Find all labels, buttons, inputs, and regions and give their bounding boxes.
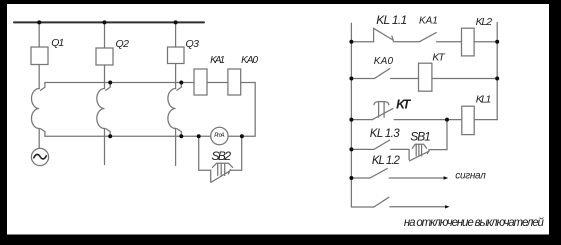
SB1 contact blade (410, 151, 429, 161)
node rung3 SB1 branch (445, 118, 449, 122)
rung3 wire to right rail (474, 119, 497, 121)
rung4 wire to SB1 (391, 148, 409, 150)
CT2 secondary top lead (106, 83, 110, 91)
contact KA0 blade (374, 69, 389, 79)
svg-text:PmA: PmA (214, 133, 224, 139)
SB2 button dome (212, 163, 232, 167)
node rail1 rung3 (349, 118, 353, 122)
rung3 wire from left rail (351, 119, 372, 121)
bus bar (14, 21, 204, 23)
SB2 left branch wire (199, 136, 211, 182)
contact KL1.3 blade (374, 140, 390, 149)
SB1 dome hatch lines (416, 144, 421, 156)
rung5 wire to signal arrow (389, 177, 444, 179)
CT1 secondary bottom lead (41, 129, 45, 137)
AC tilde (34, 154, 47, 159)
contact KL1.2 blade (370, 169, 387, 178)
svg-text:Q1: Q1 (51, 37, 64, 49)
svg-text:SB2: SB2 (212, 149, 232, 163)
node bus-phase2 (103, 20, 107, 24)
node SB2 right (240, 134, 244, 138)
relay coil KA0 (228, 69, 241, 95)
CT2 secondary bottom lead (106, 129, 110, 137)
svg-text:на отключение выключателей: на отключение выключателей (404, 217, 545, 229)
node bus-phase3 (174, 20, 178, 24)
right rail of ladder (496, 23, 498, 120)
SB1 right wire (429, 149, 447, 151)
contact blade rung6 (374, 197, 389, 207)
CT2 winding arcs (97, 89, 105, 129)
svg-text:Q2: Q2 (116, 38, 130, 50)
contact KL1.1 blade (374, 28, 393, 40)
node top CT3 (179, 81, 183, 85)
wire Q2 to CT2 (104, 65, 106, 89)
wire CT1 to source (38, 129, 40, 149)
svg-text:KL 1.2: KL 1.2 (372, 155, 401, 167)
wire secondary top bus (45, 82, 194, 84)
SB1 button dome (412, 144, 426, 148)
rung2 wire to right rail (432, 78, 497, 80)
svg-text:KA0: KA0 (374, 56, 394, 67)
node bottom CT3 (179, 134, 183, 138)
contact KT blade (372, 109, 392, 120)
rung6 wire to arrow (390, 206, 446, 208)
node rail1 rung2 (349, 77, 353, 81)
SB2 contact blade (211, 171, 230, 182)
relay coil KT (419, 63, 432, 91)
CT3 winding arcs (168, 89, 176, 129)
wire CT3 tail (175, 129, 177, 166)
rung4 wire from left rail (351, 148, 374, 150)
SB2 right branch wire (230, 136, 241, 170)
relay coil KL2 (462, 28, 475, 56)
wire Q1 to CT1 (38, 65, 40, 89)
CT3 secondary bottom lead (177, 129, 181, 137)
node rail1 rung5 (349, 176, 353, 180)
breaker Q3 (168, 47, 185, 64)
svg-text:KL 1.1: KL 1.1 (376, 13, 407, 27)
svg-text:KL 1.3: KL 1.3 (370, 128, 400, 140)
rung2 wire to KT coil (391, 78, 419, 80)
node SB2 left (197, 134, 201, 138)
node rail2 rung1 (495, 40, 499, 44)
SB1 step (408, 150, 410, 160)
node rail1 rung1 (349, 40, 353, 44)
wire CT2 tail (104, 129, 106, 165)
svg-text:SB1: SB1 (410, 130, 431, 144)
rung5 wire from left rail (351, 177, 370, 179)
svg-text:KA0: KA0 (241, 55, 258, 66)
contact KL1.1 tick (392, 36, 394, 41)
contact KL1.1 riser (373, 28, 375, 41)
AC source G (31, 148, 48, 165)
wire phase1 drop (38, 22, 40, 47)
CT1 secondary top lead (41, 83, 45, 91)
svg-text:KT: KT (432, 51, 446, 63)
relay coil KA1 (194, 69, 207, 95)
ammeter PmA (211, 127, 228, 144)
node bottom CT2 (108, 134, 112, 138)
rung1 wire from left rail (351, 41, 373, 43)
SB2 dome hatch lines (218, 163, 225, 175)
left rail of ladder (350, 23, 352, 207)
wire secondary bottom bus (45, 135, 211, 137)
relay coil KL1 (462, 106, 474, 134)
node top CT2 (108, 81, 112, 85)
arrow signal (444, 176, 449, 179)
wire KA0 to right corner (228, 83, 255, 137)
SB2 blade tick (228, 170, 230, 174)
wire KA1 to KA0 (207, 82, 228, 84)
svg-text:сигнал: сигнал (455, 171, 486, 182)
rung6 corner wire (351, 206, 373, 208)
breaker Q2 (96, 48, 113, 65)
SB1 blade tick (428, 150, 430, 154)
svg-text:KT: KT (396, 97, 412, 111)
CT1 winding arcs (32, 89, 40, 129)
rung3 wire to KL1 (394, 119, 462, 121)
node rail2 rung2 (495, 77, 499, 81)
svg-text:KA1: KA1 (419, 16, 438, 27)
wire phase3 drop (175, 22, 177, 47)
svg-text:Q3: Q3 (186, 38, 200, 50)
wire Q3 to CT3 (175, 64, 177, 89)
wire phase2 drop (104, 22, 106, 48)
svg-text:KL1: KL1 (476, 93, 492, 105)
contact KA1 blade (420, 33, 437, 42)
svg-text:KL2: KL2 (476, 16, 493, 28)
rung1 middle wire (394, 41, 420, 43)
arrow trip (445, 205, 450, 208)
rung1 wire to KL2 (437, 41, 462, 43)
breaker Q1 (31, 47, 48, 65)
rung2 wire from left rail (351, 78, 374, 80)
wire SB1 up to rung3 (446, 120, 448, 150)
rung1 wire to right rail (474, 41, 497, 43)
svg-text:KA1: KA1 (210, 55, 225, 66)
CT3 secondary top lead (177, 83, 181, 91)
node rail1 rung4 (349, 147, 353, 151)
KT delay symbol (374, 102, 389, 118)
node bus-phase1 (37, 20, 41, 24)
